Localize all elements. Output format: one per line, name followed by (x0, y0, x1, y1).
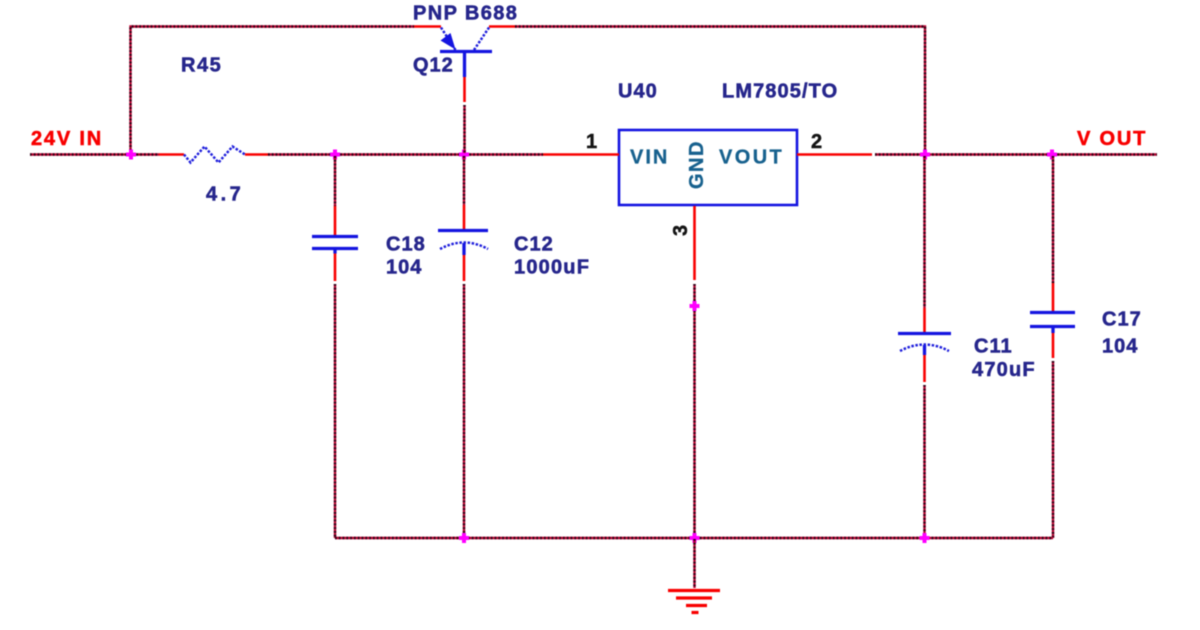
svg-text:GND: GND (686, 140, 708, 189)
node C12 base tap (459, 150, 469, 160)
svg-text:LM7805/TO: LM7805/TO (722, 81, 838, 103)
node VOUT junction (920, 150, 930, 160)
svg-text:2: 2 (811, 131, 822, 153)
svg-text:470uF: 470uF (972, 359, 1036, 381)
node input junction (126, 150, 136, 160)
capacitor C18 lower blue stub (333, 250, 336, 254)
wire emitter red stub (414, 25, 441, 28)
wire C12 upper dark (463, 156, 465, 205)
wire input rail left (30, 153, 159, 155)
wire base lead red (463, 77, 466, 102)
transistor Q12 emitter arrow (441, 33, 456, 50)
capacitor C11 curved plate (900, 345, 949, 352)
svg-text:4.7: 4.7 (206, 184, 244, 206)
node bottom C12 (459, 533, 469, 543)
capacitor C17 lower blue stub (1051, 328, 1054, 333)
wire top-left vertical + top horizontal left segment (131, 27, 415, 155)
node bottom GND (690, 533, 700, 543)
svg-text:1: 1 (586, 131, 597, 153)
wire C12 lower dark (463, 284, 465, 538)
wire bottom rail (335, 537, 1053, 539)
capacitor C12 curved plate (440, 243, 488, 250)
node C17 tap (1047, 150, 1057, 160)
wire C12 upper red (463, 205, 466, 229)
svg-text:1000uF: 1000uF (514, 257, 590, 279)
wire C18 lower dark (334, 284, 336, 538)
wire pin1 red (543, 153, 619, 156)
svg-text:C17: C17 (1102, 309, 1142, 331)
node bottom C11 (920, 533, 930, 543)
transistor Q12 emitter diagonal (441, 28, 456, 51)
wire C11 upper dark (923, 156, 925, 308)
transistor Q12 collector diagonal (474, 28, 489, 51)
wire C18 upper dark (334, 156, 336, 206)
node GND wire junction (690, 301, 700, 311)
capacitor C11 straight plate (898, 332, 951, 335)
op-amp U40 regulator box (619, 130, 797, 205)
wire ground stub (693, 539, 695, 588)
wire collector red stub (489, 25, 515, 28)
wire C17 lower red (1052, 333, 1055, 358)
wire C11 lower red (923, 355, 926, 382)
svg-text:3: 3 (670, 225, 692, 236)
svg-text:104: 104 (386, 257, 422, 279)
svg-text:C18: C18 (386, 234, 426, 256)
svg-text:VOUT: VOUT (719, 147, 784, 169)
svg-text:Q12: Q12 (413, 55, 454, 77)
capacitor C12 lower blue stub (462, 243, 465, 255)
wire C18 lower red (334, 254, 337, 282)
svg-text:U40: U40 (618, 81, 658, 103)
svg-text:C12: C12 (514, 234, 554, 256)
capacitor C17 bottom plate (1030, 325, 1075, 328)
wire pin3 red (693, 206, 696, 280)
resistor R45 (184, 147, 245, 163)
wire pin2 red (797, 153, 872, 156)
svg-text:R45: R45 (181, 55, 222, 77)
transistor Q12 base bar (440, 50, 492, 53)
wire pin3 dark (693, 284, 695, 538)
svg-text:V OUT: V OUT (1077, 128, 1147, 150)
wire C17 upper red (1052, 283, 1055, 311)
capacitor C17 top plate (1030, 311, 1075, 314)
wire resistor right red stub (245, 153, 268, 156)
wire C17 upper dark (1052, 156, 1054, 283)
capacitor C18 bottom plate (312, 247, 358, 250)
wire C18 upper red (334, 206, 337, 235)
wire C11 upper red (923, 308, 926, 332)
svg-text:PNP B688: PNP B688 (413, 3, 518, 25)
svg-text:104: 104 (1102, 336, 1138, 358)
capacitor C11 lower blue stub (923, 345, 926, 355)
wire C17 lower dark (1052, 361, 1054, 538)
wire resistor left red stub (159, 153, 184, 156)
node C18 tap (330, 150, 340, 160)
wire top horizontal right segment + right vertical down (515, 27, 925, 154)
ground (668, 591, 720, 613)
transistor Q12 base lead blue (463, 53, 466, 77)
wire output rail (875, 153, 1157, 155)
svg-text:VIN: VIN (630, 147, 669, 169)
wire input rail middle (268, 153, 543, 155)
wire C11 lower dark (923, 385, 925, 538)
wire C12 lower red (463, 255, 466, 281)
capacitor C18 top plate (312, 235, 358, 238)
capacitor C12 straight plate (438, 229, 488, 232)
svg-text:24V IN: 24V IN (31, 128, 103, 150)
svg-text:C11: C11 (974, 336, 1013, 358)
wire base lead dark (463, 105, 465, 153)
